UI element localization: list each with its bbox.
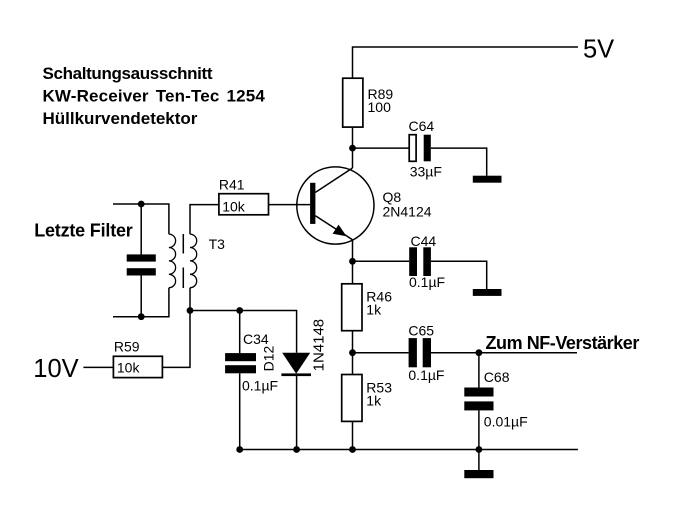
svg-text:Letzte Filter: Letzte Filter: [34, 221, 133, 241]
resistor R53: [342, 375, 392, 422]
wire emitter: [352, 240, 354, 262]
resistor R46: [342, 284, 392, 331]
svg-text:0.1µF: 0.1µF: [409, 274, 445, 290]
svg-text:T3: T3: [209, 236, 226, 252]
svg-text:Hüllkurvendetektor: Hüllkurvendetektor: [43, 109, 198, 128]
capacitor C34: [225, 331, 278, 394]
wire filter cap top: [140, 204, 142, 254]
node C65 row junction: [349, 349, 356, 356]
wire C34 to bottom rail: [239, 373, 241, 449]
svg-text:R59: R59: [114, 338, 140, 354]
diode D12: [261, 319, 328, 376]
capacitor C44: [409, 233, 445, 290]
wire node to C65: [353, 352, 409, 354]
wire R53 to bottom rail: [352, 421, 354, 449]
wire filter cap bottom: [140, 276, 142, 317]
svg-text:1k: 1k: [366, 302, 382, 318]
wire R46 to C65 node: [352, 331, 354, 353]
svg-text:10k: 10k: [222, 199, 246, 215]
wire filter bottom rail: [113, 288, 169, 317]
wire output node to C68: [478, 353, 480, 388]
svg-text:10V: 10V: [33, 355, 78, 383]
wire node to C64: [353, 147, 410, 149]
wire C64 to ground: [431, 148, 487, 176]
node bottom rail junctions: [236, 446, 243, 453]
svg-text:5V: 5V: [583, 35, 614, 63]
wire R89 to collector node: [352, 127, 354, 148]
svg-text:10k: 10k: [117, 360, 141, 376]
wire T3 secondary bottom: [189, 288, 191, 311]
wire emitter node to C44: [353, 260, 410, 262]
node output junction: [476, 349, 483, 356]
node secondary bottom junction: [187, 307, 194, 314]
node collector junction: [349, 145, 356, 152]
title text: [43, 64, 266, 128]
wire base: [269, 204, 311, 206]
svg-text:100: 100: [368, 99, 392, 115]
wire R41 to T3 secondary: [190, 205, 219, 235]
wire junction down to R59: [162, 311, 190, 368]
wire 5V rail: [353, 47, 579, 78]
svg-text:C68: C68: [484, 369, 510, 385]
wire secondary row to diode: [190, 311, 297, 353]
node filter bottom junction: [138, 313, 145, 320]
wire filter top rail: [113, 204, 169, 234]
svg-text:C64: C64: [409, 118, 435, 134]
ground at bottom: [464, 470, 493, 478]
ground at C64: [473, 176, 502, 183]
wire diode to bottom rail: [296, 376, 298, 449]
wire C68 to bottom rail: [478, 410, 480, 449]
wire bottom rail: [240, 449, 578, 451]
wire C34 branch top: [239, 311, 241, 354]
resistor R89: [343, 78, 394, 127]
wire collector: [352, 148, 354, 168]
svg-text:1N4148: 1N4148: [311, 319, 328, 372]
svg-text:0.01µF: 0.01µF: [484, 414, 528, 430]
node C34 top junction: [236, 307, 243, 314]
svg-text:0.1µF: 0.1µF: [242, 378, 278, 394]
svg-text:0.1µF: 0.1µF: [408, 367, 444, 383]
resistor R41: [219, 177, 269, 215]
resistor R59: [113, 338, 162, 377]
svg-text:C44: C44: [411, 233, 437, 249]
svg-text:KW-Receiver Ten-Tec 1254: KW-Receiver Ten-Tec 1254: [43, 86, 266, 105]
wire C65 to output node: [431, 352, 479, 354]
node filter top junction: [138, 201, 145, 208]
node emitter junction: [349, 258, 356, 265]
svg-text:C65: C65: [408, 323, 434, 339]
svg-text:D12: D12: [261, 346, 277, 372]
svg-text:1k: 1k: [366, 393, 382, 409]
capacitor filter: [127, 254, 156, 275]
wire emitter node to R46: [352, 261, 354, 284]
svg-text:Schaltungsausschnitt: Schaltungsausschnitt: [43, 64, 213, 83]
capacitor C68: [464, 369, 527, 430]
svg-text:C34: C34: [243, 331, 269, 347]
ground at C44: [473, 289, 502, 296]
transformer T3: [169, 234, 225, 288]
svg-text:Zum NF-Verstärker: Zum NF-Verstärker: [486, 333, 640, 353]
svg-text:33µF: 33µF: [410, 163, 442, 179]
wire ground stub bottom: [478, 450, 480, 471]
wire C44 to ground: [431, 261, 487, 289]
transistor Q8: [297, 167, 432, 244]
wire 10V to R59: [83, 366, 113, 368]
wire output: [479, 352, 577, 354]
capacitor C65: [408, 323, 444, 383]
capacitor C64: [409, 118, 442, 179]
svg-text:R41: R41: [219, 177, 245, 193]
wire R53 top: [352, 353, 354, 375]
svg-text:2N4124: 2N4124: [383, 203, 432, 219]
